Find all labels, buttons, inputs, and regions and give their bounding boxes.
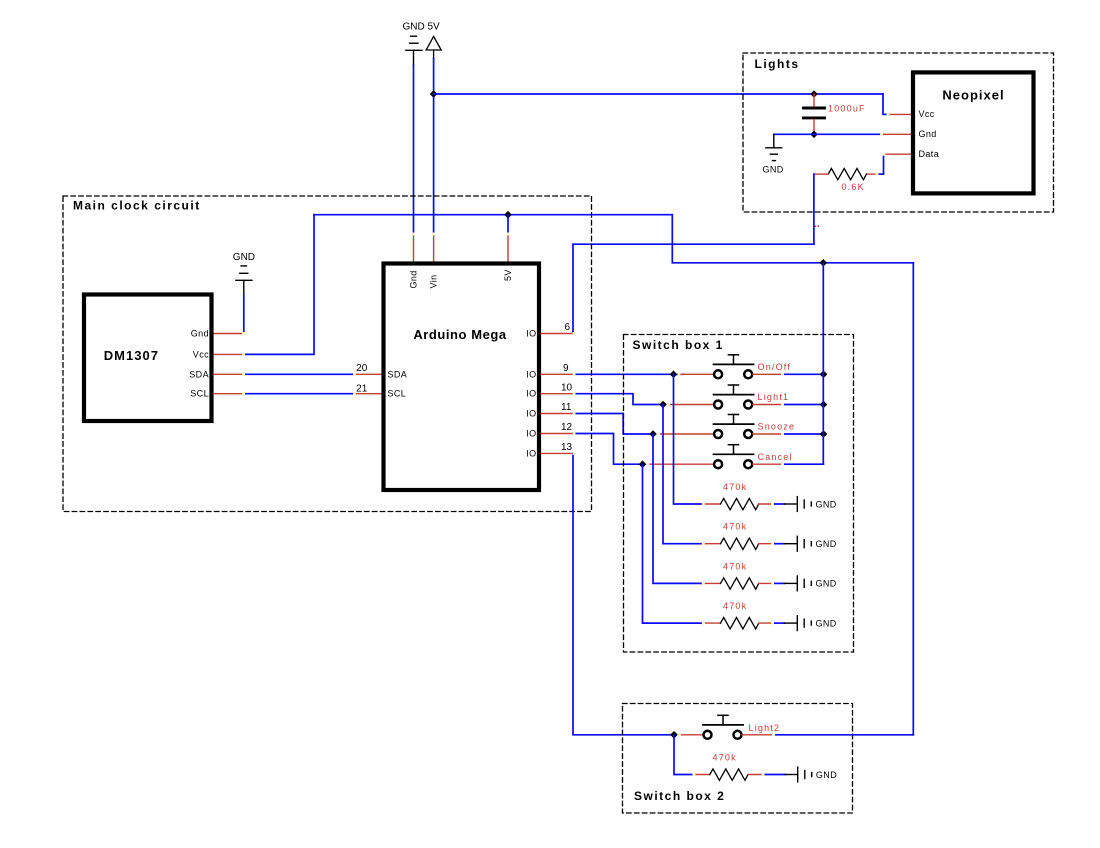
part marker dots — [815, 225, 820, 227]
wire endpoint ticks — [242, 113, 890, 776]
resistor R6 body 470k — [710, 769, 748, 780]
wire Snooze to resistor R4 — [653, 434, 702, 583]
svg-text:SDA: SDA — [388, 369, 408, 379]
svg-text:GND: GND — [763, 165, 784, 175]
pushbutton S1 On/Off — [714, 355, 754, 379]
svg-text:IO: IO — [526, 329, 536, 339]
wire Light2 to resistor R6 — [674, 735, 693, 775]
junction Snooze left — [649, 430, 657, 438]
resistor R1 right stub — [866, 173, 877, 175]
junction Light1 left — [659, 401, 667, 409]
wire gnd net to Neopixel Gnd — [774, 133, 883, 135]
svg-text:470k: 470k — [723, 561, 747, 571]
pin stub Arduino IO11 — [541, 413, 573, 415]
svg-text:Main clock circuit: Main clock circuit — [73, 199, 201, 213]
wire On/Off to resistor R2 — [674, 374, 703, 504]
svg-text:1000uF: 1000uF — [828, 104, 866, 114]
svg-text:On/Off: On/Off — [758, 362, 792, 372]
svg-text:Arduino Mega: Arduino Mega — [413, 327, 506, 342]
wire to lights ground symbol — [773, 134, 775, 148]
svg-text:Switch box 2: Switch box 2 — [634, 789, 725, 803]
junction Light2 left — [670, 731, 678, 739]
pin stub DM1307 Gnd — [214, 333, 244, 335]
wire Data net leaving Lights box — [813, 174, 815, 244]
svg-text:Vin: Vin — [429, 274, 439, 288]
svg-text:0.6K: 0.6K — [842, 182, 865, 192]
wire 5V rail right riser — [912, 263, 914, 735]
Switch box 1 group box — [624, 335, 854, 653]
svg-text:Switch box 1: Switch box 1 — [633, 338, 724, 352]
Neopixel U2 — [913, 72, 1034, 193]
wire pin13 to Light2 — [573, 453, 674, 734]
resistor R1 left stub — [814, 173, 828, 175]
svg-text:Gnd: Gnd — [409, 270, 419, 288]
junction capacitor top — [810, 90, 818, 98]
wire pin12 to Cancel — [573, 434, 643, 465]
resistor R5 left stub — [702, 622, 721, 624]
ground symbol (DM1307) — [236, 266, 252, 293]
ground symbol R4 — [784, 576, 811, 591]
pin stub Light2 left — [679, 734, 703, 736]
svg-text:GND: GND — [816, 499, 837, 509]
svg-text:IO: IO — [526, 389, 536, 399]
wire SDA — [243, 373, 354, 375]
ground symbol R5 — [784, 616, 811, 631]
capacitor C1 pin stub top — [813, 94, 815, 107]
pin stub DM1307 SDA — [214, 373, 243, 375]
pin stub Arduino SCL — [354, 393, 383, 395]
pin stub DM1307 Vcc — [214, 353, 243, 355]
svg-text:IO: IO — [526, 448, 536, 458]
svg-text:Gnd: Gnd — [919, 129, 937, 139]
pin stub Cancel right — [753, 463, 782, 465]
resistor R4 right stub — [759, 582, 774, 584]
wire 5V rail top — [314, 214, 672, 216]
resistor R3 left stub — [702, 543, 721, 545]
wire Data net down to pin 6 — [572, 244, 574, 333]
svg-text:Snooze: Snooze — [758, 422, 796, 432]
svg-text:DM1307: DM1307 — [104, 348, 159, 363]
wire DM1307 gnd — [243, 293, 245, 333]
svg-text:Vcc: Vcc — [919, 109, 935, 119]
svg-text:12: 12 — [561, 422, 573, 433]
Arduino Mega U1 — [384, 264, 540, 491]
pin stub On/Off left — [679, 373, 714, 375]
ground symbol R2 — [784, 497, 811, 512]
wire R5 to ground — [774, 622, 784, 624]
svg-text:Light2: Light2 — [749, 723, 781, 733]
svg-text:Vcc: Vcc — [193, 349, 209, 359]
resistor R3 body 470k — [721, 538, 759, 549]
ground symbol (top supply) — [406, 36, 422, 65]
svg-text:IO: IO — [526, 369, 536, 379]
svg-text:Light1: Light1 — [758, 392, 790, 402]
pin stub On/Off right — [753, 373, 782, 375]
svg-text:470k: 470k — [723, 522, 747, 532]
wire Data net horizontal to pin 6 column — [573, 243, 814, 245]
wire pin10 to Light1 — [573, 394, 663, 405]
pin stub Arduino IO6 — [541, 333, 573, 335]
resistor R1 right wire — [877, 173, 884, 175]
svg-text:6: 6 — [565, 322, 571, 333]
svg-text:Gnd: Gnd — [191, 329, 209, 339]
svg-text:Neopixel: Neopixel — [942, 88, 1004, 103]
svg-text:GND: GND — [816, 770, 837, 780]
wire Data to resistor R1 — [883, 154, 885, 174]
svg-text:10: 10 — [561, 382, 573, 393]
svg-text:GND: GND — [233, 252, 255, 263]
pin stub Arduino IO13 — [541, 452, 573, 454]
junction Vin/Neopixel-Vcc net — [430, 90, 438, 98]
svg-text:470k: 470k — [723, 482, 747, 492]
junction Arduino 5V — [504, 211, 512, 219]
resistor R5 right stub — [759, 622, 774, 624]
resistor R1 body 0.6K — [828, 168, 866, 179]
svg-text:GND: GND — [816, 618, 837, 628]
DM1307 U3 — [84, 295, 212, 422]
wire Cancel to resistor R5 — [643, 464, 703, 623]
wire SCL — [243, 393, 354, 395]
svg-text:Cancel: Cancel — [758, 452, 793, 462]
svg-text:11: 11 — [561, 402, 572, 413]
capacitor C1 pin stub bottom — [813, 119, 815, 134]
5V supply symbol (triangle) — [426, 36, 441, 58]
ground symbol R6 — [785, 767, 811, 782]
pin stub Arduino Gnd (top) — [413, 234, 415, 264]
svg-text:5V: 5V — [503, 269, 513, 281]
svg-text:IO: IO — [526, 409, 536, 419]
pin stub Arduino Vin (top) — [433, 234, 435, 264]
wire Vin net to Neopixel Vcc — [883, 94, 889, 114]
pin stub Arduino 5V (top) — [507, 234, 509, 264]
wire pin11 to Snooze — [573, 414, 653, 435]
pushbutton S5 Light2 — [703, 715, 743, 739]
wire 5V rail in switch box 1 — [822, 263, 824, 464]
svg-text:GND: GND — [816, 579, 837, 589]
resistor R4 body 470k — [721, 578, 759, 589]
pushbutton S4 Cancel — [714, 445, 754, 469]
svg-text:9: 9 — [563, 363, 569, 374]
wire Snooze to 5V rail — [782, 433, 824, 435]
pin stub DM1307 SCL — [214, 393, 243, 395]
resistor R3 right stub — [759, 543, 774, 545]
svg-text:GND: GND — [816, 539, 837, 549]
junction capacitor bottom — [810, 131, 818, 139]
resistor R6 left stub — [693, 774, 710, 776]
resistor R6 right stub — [748, 774, 764, 776]
svg-text:13: 13 — [561, 442, 573, 453]
junction Light1 right — [820, 401, 828, 409]
wire Light1 to resistor R3 — [663, 405, 702, 544]
resistor R4 left stub — [702, 582, 721, 584]
svg-text:Lights: Lights — [755, 57, 800, 71]
ground symbol R3 — [784, 536, 811, 551]
junction On/Off left — [670, 371, 678, 379]
svg-text:21: 21 — [356, 383, 368, 394]
pushbutton S2 Light1 — [714, 385, 754, 409]
svg-text:470k: 470k — [723, 601, 747, 611]
pin stub Light1 right — [753, 404, 782, 406]
capacitor C1 plates — [804, 108, 825, 118]
wire Light1 to 5V rail — [782, 404, 824, 406]
wire pin9 to On/Off — [573, 373, 683, 375]
pin stub Light1 left — [668, 404, 714, 406]
pin stub Arduino IO9 — [541, 373, 573, 375]
pin stub Neopixel Data — [884, 153, 914, 155]
pin stub Light2 right — [742, 734, 774, 736]
svg-text:SCL: SCL — [190, 389, 209, 399]
svg-text:IO: IO — [526, 429, 536, 439]
wire R6 to ground — [764, 774, 785, 776]
wire 5V rail to switch area — [672, 215, 913, 263]
wire DM1307 Vcc riser — [243, 215, 314, 355]
svg-text:20: 20 — [356, 363, 368, 374]
pin stub Neopixel Vcc — [889, 113, 913, 115]
pin stub Arduino SDA — [354, 373, 383, 375]
svg-text:SCL: SCL — [388, 389, 407, 399]
svg-text:Data: Data — [919, 149, 940, 159]
svg-text:GND 5V: GND 5V — [403, 22, 441, 33]
pin stub Snooze right — [753, 433, 782, 435]
wire On/Off to 5V rail — [782, 373, 824, 375]
svg-text:470k: 470k — [713, 753, 737, 763]
junction Snooze right — [820, 430, 828, 438]
pushbutton S3 Snooze — [714, 415, 754, 439]
pin stub Snooze left — [658, 433, 714, 435]
wire Light2 to 5V riser — [774, 734, 914, 736]
Switch box 2 group box — [623, 704, 853, 814]
junction On/Off right — [820, 371, 828, 379]
wire GND-top to Arduino Gnd — [413, 65, 415, 234]
pin stub Neopixel Gnd — [883, 133, 913, 135]
pin stub Cancel left — [648, 463, 714, 465]
Lights group box — [743, 53, 1054, 212]
Main clock circuit group box — [63, 196, 592, 512]
wire Cancel to 5V rail — [782, 463, 824, 465]
ground symbol (Lights) — [766, 148, 782, 161]
wire Vin net to Lights box — [434, 93, 883, 95]
wire 5V symbol to Arduino Vin — [433, 58, 435, 234]
pin stub Arduino IO10 — [541, 393, 573, 395]
wire R2 to ground — [774, 503, 784, 505]
junction 5V rail switch box 1 — [820, 259, 828, 267]
resistor R2 body 470k — [721, 498, 759, 509]
wire R4 to ground — [774, 582, 784, 584]
svg-text:SDA: SDA — [189, 369, 209, 379]
wire R3 to ground — [774, 543, 784, 545]
resistor R2 right stub — [759, 503, 774, 505]
junction Cancel left — [639, 460, 647, 468]
pin stub Arduino IO12 — [541, 433, 573, 435]
wire to Arduino 5V pin — [507, 215, 509, 234]
resistor R2 left stub — [702, 503, 721, 505]
resistor R5 body 470k — [721, 618, 759, 629]
